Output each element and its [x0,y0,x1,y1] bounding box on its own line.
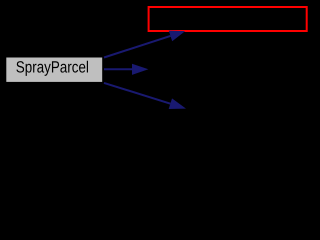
wire arrow3 shaft [104,83,170,104]
arrowhead 3 [169,98,186,109]
wire arrow1 shaft [104,36,170,58]
inheritance arrow 3 (to bottom) [104,83,186,109]
inheritance arrow 2 (middle, horizontal) [104,64,148,75]
inheritance arrow 1 (to red box) [104,31,185,58]
node box fill [6,58,102,82]
arrowhead 1 [169,31,185,42]
label "SprayParcel" (text as outline path) [16,61,88,76]
arrowhead 2 [132,64,148,75]
node SprayParcel (grey class box) [6,58,102,82]
wire arrow2 shaft [104,68,132,70]
highlighted base-class box (red border, truncated node) [149,7,307,31]
